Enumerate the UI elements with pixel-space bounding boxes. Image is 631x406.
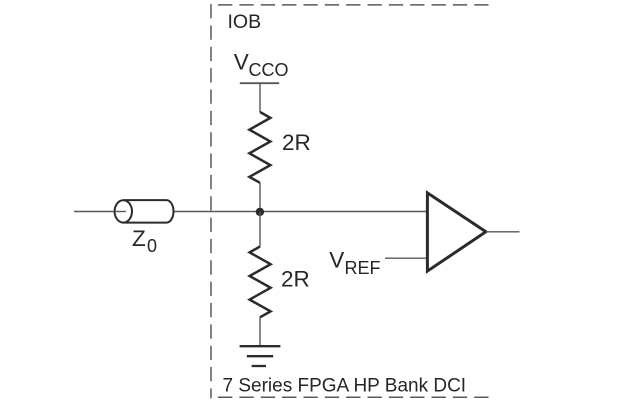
IOB dashed boundary top edge bbox=[211, 4, 489, 6]
input buffer triangle bbox=[427, 193, 486, 271]
IOB dashed boundary left edge bbox=[210, 4, 212, 398]
svg-text:2R: 2R bbox=[282, 130, 311, 155]
net label VCCO bbox=[234, 49, 289, 80]
svg-text:CCO: CCO bbox=[249, 60, 289, 80]
VCCO supply rail bar bbox=[240, 82, 279, 84]
node junction dot bbox=[256, 208, 264, 216]
svg-text:7 Series FPGA HP Bank DCI: 7 Series FPGA HP Bank DCI bbox=[223, 376, 467, 397]
resistor 2R lower bbox=[250, 247, 271, 318]
IOB dashed boundary bottom edge bbox=[211, 396, 489, 398]
svg-text:IOB: IOB bbox=[228, 11, 262, 33]
svg-text:V: V bbox=[329, 248, 344, 273]
wire horizontal main input line bbox=[74, 211, 427, 213]
svg-text:0: 0 bbox=[147, 236, 157, 256]
svg-text:V: V bbox=[234, 49, 249, 74]
svg-text:2R: 2R bbox=[281, 267, 310, 292]
svg-text:REF: REF bbox=[345, 258, 381, 278]
resistor 2R upper bbox=[249, 112, 270, 183]
transmission line Z0 symbol bbox=[115, 200, 174, 223]
wire from VCCO rail to resistor R-top bbox=[259, 83, 261, 112]
wire from node to lower resistor bbox=[259, 212, 261, 247]
wire from upper resistor to node bbox=[259, 183, 261, 213]
wire buffer output bbox=[486, 231, 520, 233]
label Z0 bbox=[132, 226, 157, 256]
net label VREF bbox=[329, 248, 380, 278]
wire from lower resistor to ground bbox=[259, 317, 261, 346]
ground symbol bbox=[240, 346, 281, 366]
wire from VREF label to buffer input bbox=[385, 257, 427, 259]
svg-text:Z: Z bbox=[132, 226, 146, 251]
